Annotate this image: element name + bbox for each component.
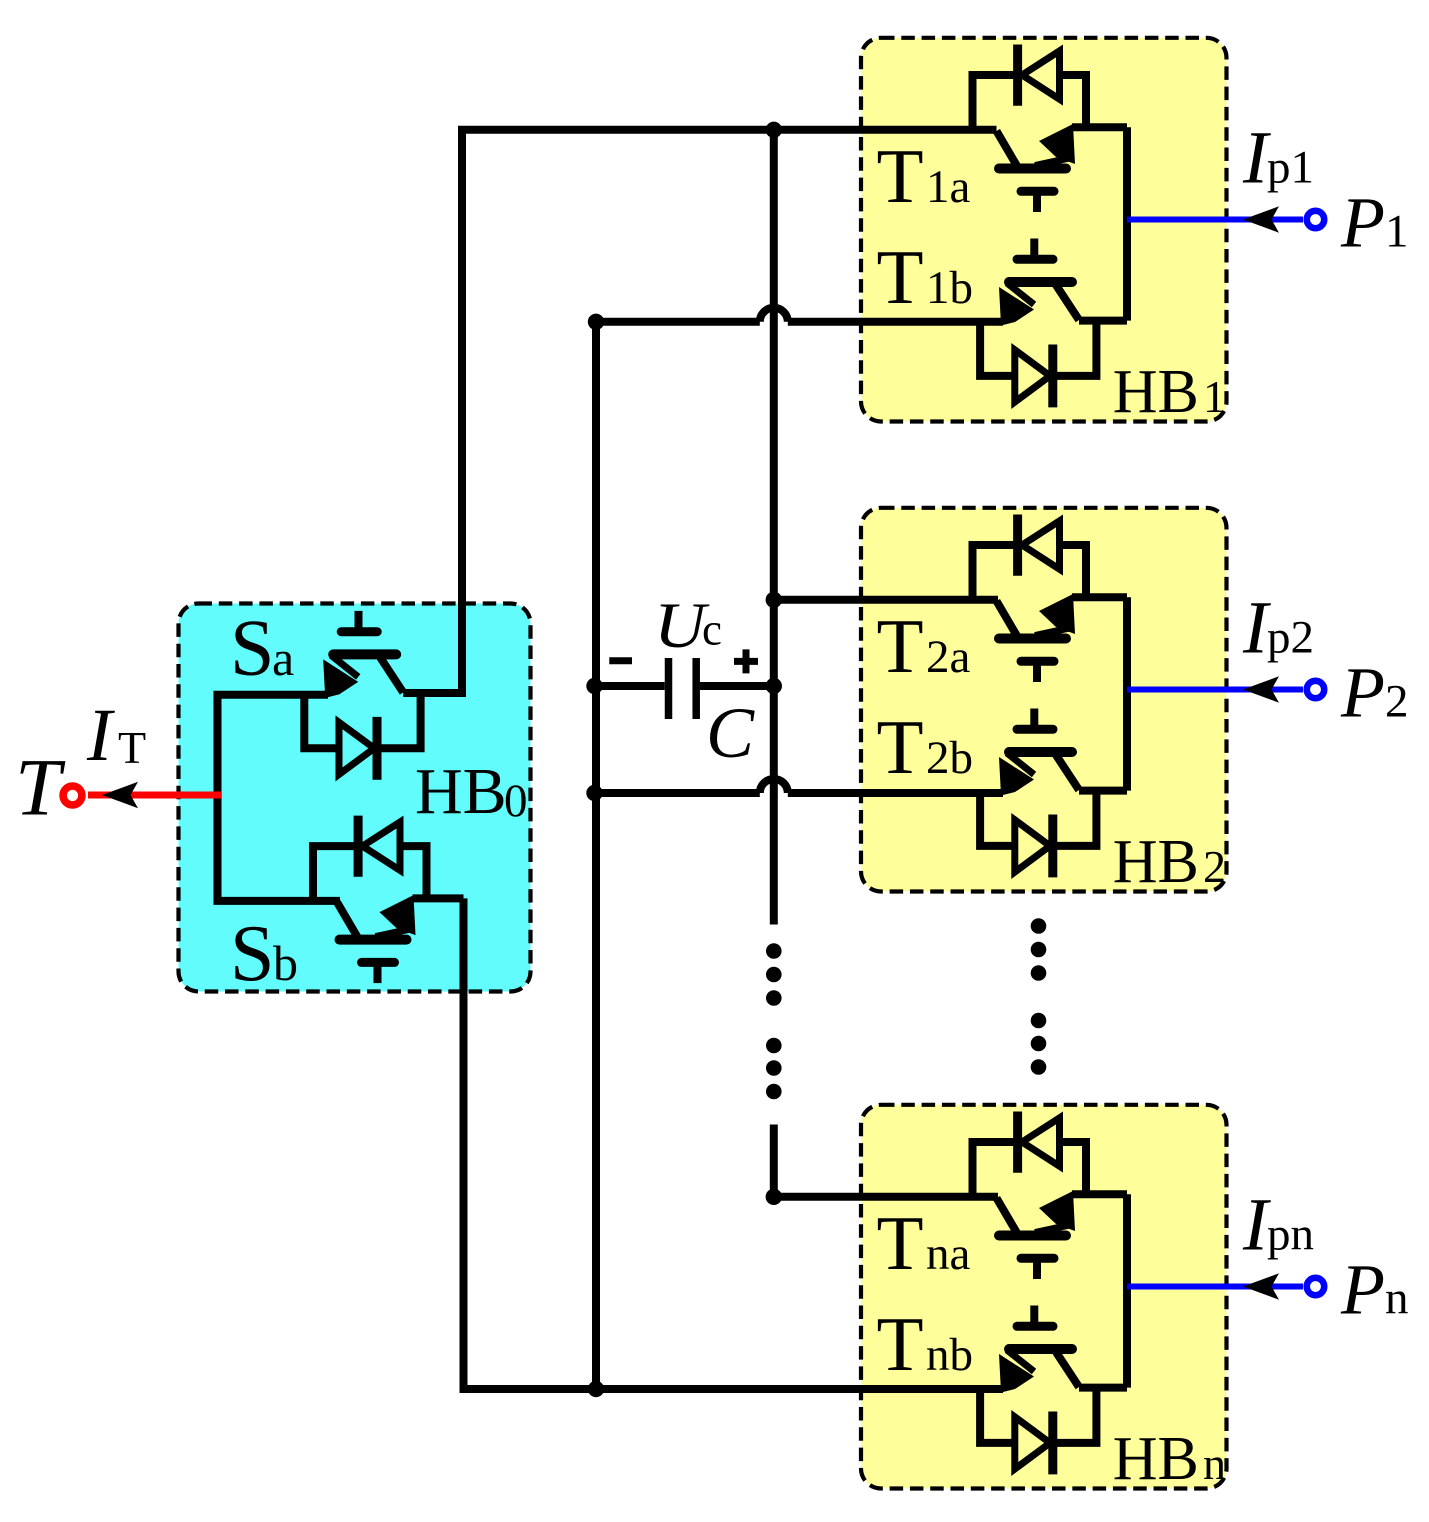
svg-text:T: T [877, 234, 924, 320]
module box HB0 (dashed cyan) [179, 604, 531, 992]
svg-text:2b: 2b [926, 732, 973, 784]
junction node capacitor right [766, 678, 782, 694]
svg-text:1: 1 [1385, 206, 1409, 258]
svg-text:S: S [230, 910, 275, 998]
label T2a [877, 603, 971, 689]
label T1a [877, 133, 971, 219]
wire Tnb collector corner to output rail [1079, 1384, 1127, 1392]
svg-text:S: S [230, 605, 275, 693]
current arrow IP2 [1243, 676, 1279, 702]
diode DT2a (antiparallel, above T2a) [973, 515, 1087, 601]
capacitor C [595, 658, 774, 719]
wire HB2 output rail [1123, 597, 1131, 790]
label P2 [1340, 653, 1409, 733]
svg-text:2: 2 [1203, 841, 1226, 892]
svg-text:T: T [118, 722, 146, 773]
current arrow IT [102, 782, 138, 808]
wire T2a emitter corner to output rail [1072, 593, 1127, 601]
svg-text:HB: HB [415, 755, 507, 828]
wire T1b collector corner to output rail [1079, 317, 1127, 325]
svg-text:T: T [15, 742, 66, 833]
wire V3 lower: down to Tna node [770, 1125, 778, 1197]
label Ip1 [1242, 117, 1314, 200]
svg-text:p2: p2 [1267, 612, 1314, 664]
label HBn [1113, 1425, 1226, 1493]
svg-text:b: b [273, 935, 298, 991]
svg-text:1b: 1b [926, 262, 973, 314]
module box HBn (dashed yellow) [861, 1105, 1227, 1489]
label T2b [877, 704, 974, 790]
label Tna [877, 1200, 971, 1286]
wire Tna emitter corner to output rail [1072, 1190, 1127, 1198]
wire T2b collector corner to output rail [1079, 787, 1127, 795]
diode DSb (antiparallel, above Sb) [313, 816, 427, 902]
svg-text:T: T [877, 603, 924, 689]
transistor T1a (IGBT) [997, 124, 1076, 212]
svg-text:n: n [1385, 1273, 1409, 1325]
wire output P1 (blue) [1127, 217, 1303, 223]
svg-text:P: P [1340, 653, 1385, 733]
label Ip2 [1242, 587, 1314, 670]
wire output P2 (blue) [1127, 687, 1303, 693]
module box HB2 (dashed yellow) [861, 508, 1227, 892]
junction node V3 / T2a [766, 592, 782, 608]
junction node V3 / Tna [766, 1189, 782, 1205]
label Ipn [1242, 1184, 1314, 1267]
transistor Tna (IGBT) [997, 1191, 1076, 1279]
transistor T1b (IGBT) [999, 239, 1079, 326]
svg-text:T: T [877, 133, 924, 219]
wire Sa collector corner to left bus [449, 689, 466, 697]
transistor Sa (IGBT) [323, 611, 403, 698]
label Sb [230, 910, 298, 998]
wire capacitor bottom node to T2b (hops over V3) [595, 779, 1004, 793]
label T (terminal) [15, 742, 66, 833]
wire Sb output down and across bottom to Tnb [464, 898, 1004, 1389]
svg-text:P: P [1340, 1250, 1385, 1330]
wire V3 to T2a [774, 596, 998, 604]
label IT [86, 694, 146, 777]
diode DT1b (antiparallel, below T1b) [980, 320, 1096, 407]
svg-text:nb: nb [926, 1329, 973, 1381]
svg-text:T: T [877, 1301, 924, 1387]
svg-text:2: 2 [1385, 676, 1409, 728]
wire V3 to Tna [774, 1193, 998, 1201]
diode DTnb (antiparallel, below Tnb) [980, 1387, 1096, 1474]
wire HB0 left rail [214, 695, 222, 901]
module box HB1 (dashed yellow) [861, 38, 1227, 422]
junction node T1b / V2 [588, 314, 604, 330]
svg-text:p1: p1 [1267, 142, 1314, 194]
svg-text:n: n [1203, 1438, 1226, 1489]
transistor T2b (IGBT) [999, 709, 1079, 796]
label C [706, 693, 755, 773]
svg-text:HB: HB [1113, 358, 1199, 426]
terminal Pn (open circle) [1307, 1278, 1324, 1295]
label HB1 [1113, 358, 1226, 426]
label Uc (capacitor voltage) [654, 589, 722, 661]
diode DTna (antiparallel, above Tna) [973, 1112, 1087, 1198]
label plus sign [734, 649, 758, 673]
svg-text:T: T [877, 1200, 924, 1286]
dotted continuation of V3 bus [766, 943, 782, 1099]
label HB2 [1113, 828, 1226, 896]
label minus sign [609, 657, 632, 664]
current arrow IPn [1243, 1273, 1279, 1299]
diode DT1a (antiparallel, above T1a) [973, 45, 1087, 131]
svg-text:HB: HB [1113, 1425, 1199, 1493]
diode DSa (antiparallel, below Sa) [304, 692, 420, 779]
terminal T (open circle, red) [63, 786, 82, 805]
svg-text:2a: 2a [926, 631, 971, 683]
svg-text:I: I [86, 694, 115, 777]
junction node V2 / bottom wire [588, 1381, 604, 1397]
wire HB1 output rail [1123, 127, 1131, 320]
svg-text:T: T [877, 704, 924, 790]
label T1b [877, 234, 974, 320]
wire rail to Sa emitter [214, 691, 329, 699]
current arrow IP1 [1243, 206, 1279, 232]
wire right bus V3 upper: from top bus down to HB2 region [770, 130, 778, 925]
label P1 [1340, 183, 1409, 263]
junction node V2 / T2b wire [586, 785, 602, 801]
terminal P1 (open circle) [1307, 211, 1324, 228]
transistor Sb (IGBT) [337, 895, 416, 983]
svg-text:HB: HB [1113, 828, 1199, 896]
svg-text:a: a [272, 630, 294, 686]
wire middle bus V2: T1b node down to bottom wire [592, 322, 600, 1389]
svg-text:na: na [926, 1228, 971, 1280]
label Sa [230, 605, 294, 693]
svg-text:c: c [702, 605, 722, 655]
wire output Pn (blue) [1127, 1284, 1303, 1290]
transistor T2a (IGBT) [997, 594, 1076, 682]
dotted continuation between HB2 and HBn [1031, 918, 1047, 1075]
junction node capacitor left [586, 678, 602, 694]
wire terminal T (red) [88, 792, 221, 799]
svg-text:pn: pn [1267, 1209, 1314, 1261]
wire node A to T1b (hops over V3) [596, 308, 1003, 322]
diode DT2b (antiparallel, below T2b) [980, 790, 1096, 877]
svg-text:P: P [1340, 183, 1385, 263]
terminal P2 (open circle) [1307, 681, 1324, 698]
label Tnb [877, 1301, 974, 1387]
wire top bus: HB0 Sa collector up and across to T1a [462, 130, 997, 693]
junction node top bus / V3 [766, 122, 782, 138]
svg-text:0: 0 [504, 775, 528, 827]
svg-text:1a: 1a [926, 161, 971, 213]
wire Sb emitter corner to output rail [413, 894, 464, 902]
label Pn [1340, 1250, 1409, 1330]
wire T1a emitter corner to output rail [1072, 123, 1127, 131]
wire HBn output rail [1123, 1194, 1131, 1387]
transistor Tnb (IGBT) [999, 1306, 1079, 1393]
wire rail to Sb collector [214, 897, 341, 905]
label HB0 [415, 755, 528, 828]
svg-text:1: 1 [1203, 371, 1226, 422]
wire Sa collector corner to output rail [403, 689, 451, 697]
svg-text:C: C [706, 693, 755, 773]
